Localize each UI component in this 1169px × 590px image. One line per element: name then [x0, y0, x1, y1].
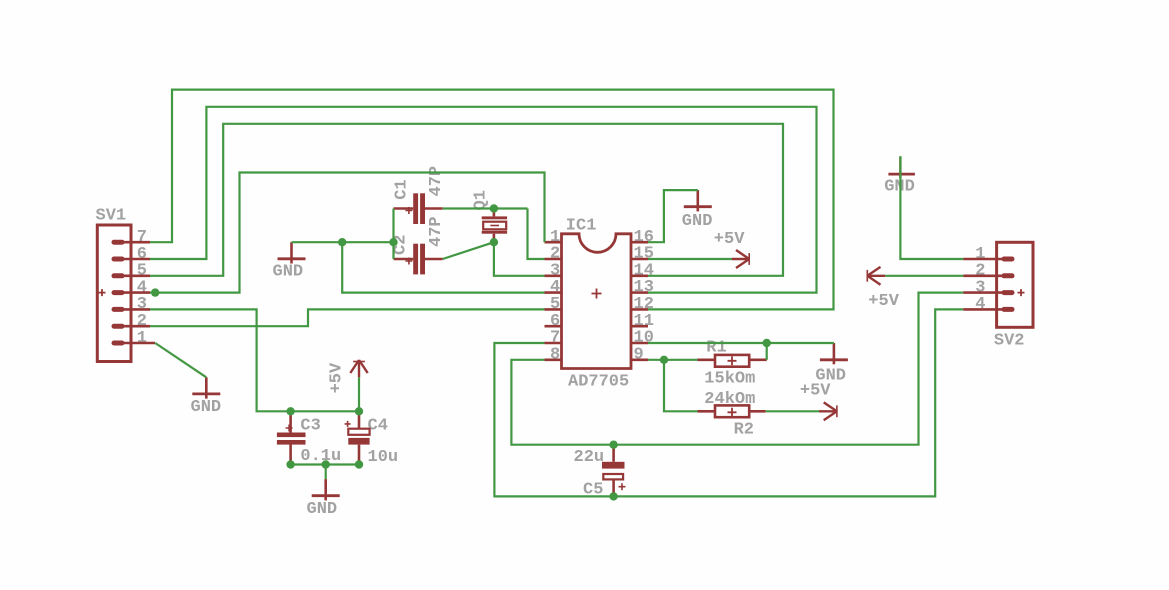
- connector SV1 body: [97, 225, 131, 362]
- capacitor C4 polarized: [345, 411, 370, 464]
- svg-text:SV1: SV1: [96, 207, 127, 226]
- SV1 pin 2: [112, 324, 151, 329]
- junction C1/C2 left node: [389, 238, 397, 246]
- ground symbol near C1/C2: [278, 242, 306, 263]
- IC1 pin 9 stub: [631, 358, 648, 361]
- svg-text:GND: GND: [191, 398, 222, 417]
- wire IC pin15 to +5V arrow: [648, 258, 732, 260]
- wire Q1 bottom to IC pin3: [494, 242, 545, 276]
- ground symbol near IC pin16: [684, 190, 712, 211]
- +5V arrow left at SV2 pin2: [867, 267, 885, 285]
- IC1 pin 12 stub: [631, 308, 648, 311]
- wire SV1 pin4 to IC pin1 (rail 4): [150, 173, 545, 293]
- ground symbol right of R1: [820, 343, 848, 364]
- connector SV2 body: [997, 242, 1033, 327]
- SV1 pin 3: [112, 307, 151, 312]
- svg-text:GND: GND: [273, 263, 304, 282]
- wire SV1 pin7 to IC pin12 (outer top rail): [150, 90, 834, 310]
- svg-text:+5V: +5V: [868, 292, 899, 311]
- IC1 pin 7 stub: [545, 342, 562, 345]
- svg-text:1: 1: [137, 329, 147, 348]
- IC1 pin 2 stub: [545, 258, 562, 261]
- IC1 pin 11 stub: [631, 325, 648, 328]
- +5V arrow after R2: [819, 402, 837, 420]
- svg-text:8: 8: [550, 345, 560, 364]
- wire SV1 pin2 to IC pin5: [150, 309, 545, 326]
- junction C5 bottom: [609, 492, 617, 500]
- SV2 pin 2: [963, 273, 1014, 278]
- svg-text:22u: 22u: [574, 448, 605, 467]
- capacitor C3: [277, 411, 306, 464]
- crystal Q1: [482, 209, 507, 243]
- svg-text:+5V: +5V: [328, 362, 347, 393]
- +5V arrow at IC pin15: [732, 250, 750, 268]
- SV1 pin 5: [112, 273, 151, 278]
- capacitor C5 polarized: [602, 445, 626, 497]
- wire down to IC pin2: [528, 209, 545, 260]
- IC1 pin 1 stub: [545, 241, 562, 244]
- wire C1 right to Q1 top to x527.5: [443, 207, 528, 209]
- svg-text:AD7705: AD7705: [568, 373, 629, 392]
- IC1 origin cross: [592, 289, 602, 299]
- wire SV1 pin3 to C3/C4 top rail: [150, 309, 359, 411]
- junction C4 bottom: [355, 460, 363, 468]
- svg-text:0.1u: 0.1u: [300, 447, 341, 466]
- junction C4 top: [355, 407, 363, 415]
- SV2 polarity mark +: [1018, 289, 1025, 296]
- wire SV2 pin1 to GND top: [900, 156, 963, 259]
- resistor R2: [698, 405, 766, 417]
- junction GND rail branch: [338, 238, 346, 246]
- wire diagonal Q1 bottom to C2 right: [443, 242, 494, 259]
- svg-text:4: 4: [975, 295, 985, 314]
- IC1 pin 8 stub: [545, 358, 562, 361]
- svg-text:15kOm: 15kOm: [704, 370, 755, 389]
- wire SV1 pin1 to GND (diagonal): [155, 343, 206, 377]
- SV2 pin 4: [963, 307, 1014, 312]
- wire IC pin8 to C5 rail to SV2 pin3: [511, 293, 963, 445]
- IC1 pin 3 stub: [545, 274, 562, 277]
- IC1 pin 10 stub: [631, 342, 648, 345]
- svg-text:+5V: +5V: [714, 230, 745, 249]
- IC1 pin 16 stub: [631, 241, 648, 244]
- wire C3/C4 bottom rail to GND: [291, 463, 359, 465]
- +5V arrow up at C4: [350, 360, 367, 377]
- IC1 pin 5 stub: [545, 308, 562, 311]
- svg-text:47P: 47P: [427, 166, 446, 197]
- SV1 pin 6: [112, 257, 151, 262]
- capacitor C1: [394, 193, 443, 224]
- svg-text:SV2: SV2: [994, 332, 1025, 351]
- IC1 pin 15 stub: [631, 258, 648, 261]
- svg-text:GND: GND: [682, 212, 713, 231]
- ground symbol below C3/C4: [312, 479, 340, 500]
- svg-text:C1: C1: [393, 179, 412, 199]
- junction IC pin9 branch: [660, 356, 668, 364]
- IC1 body AD7705: [562, 234, 632, 369]
- wire branch pin9 down to R2: [664, 360, 698, 412]
- wire branch down to IC pin4: [342, 242, 544, 292]
- wire SV1 pin5 to IC pin14 (inner top rail): [150, 124, 783, 276]
- svg-text:10u: 10u: [368, 448, 399, 467]
- wire GND stub below C3/C4: [325, 465, 327, 480]
- wire SV1 pin6 to IC pin13 (middle top rail): [150, 107, 817, 293]
- ground symbol below SV1 pin1: [192, 377, 220, 398]
- SV2 pin 1: [963, 257, 1014, 262]
- svg-text:+5V: +5V: [800, 381, 831, 400]
- junction at SV1 pin4: [151, 288, 159, 296]
- junction IC pin10 / R1: [763, 339, 771, 347]
- IC1 pin 6 stub: [545, 325, 562, 328]
- junction C3 bottom: [286, 460, 294, 468]
- svg-text:R2: R2: [734, 420, 754, 439]
- SV2 pin 3: [963, 290, 1014, 295]
- wire GND rail to C1/C2 left node: [292, 241, 394, 243]
- SV1 pin 1: [112, 341, 156, 346]
- IC1 pin 14 stub: [631, 274, 648, 277]
- wire SV2 pin2 to +5V arrow: [885, 275, 963, 277]
- IC1 pin 13 stub: [631, 291, 648, 294]
- resistor R1: [698, 355, 767, 367]
- junction C5 top: [609, 441, 617, 449]
- junction GND mid bottom: [322, 460, 330, 468]
- SV1 pin 7: [112, 240, 151, 245]
- junction Q1 bottom: [490, 238, 498, 246]
- SV1 pin 4: [112, 290, 151, 295]
- ground symbol top right (inverted): [888, 157, 915, 178]
- wire IC pin7 to bottom rail to SV2 pin4: [494, 309, 963, 496]
- svg-text:GND: GND: [307, 500, 338, 519]
- wire C1/C2 left vertical: [392, 209, 394, 260]
- wire R1 right up to pin10 net: [766, 343, 768, 360]
- wire R2 right to +5V arrow: [766, 410, 819, 412]
- wire IC pin10 to GND right: [648, 342, 834, 344]
- junction C3 top: [286, 407, 294, 415]
- wire IC pin16 to GND: [648, 190, 698, 242]
- wire +5V branch at C4: [358, 377, 360, 411]
- wire IC pin9 to R1: [648, 359, 698, 361]
- SV1 polarity mark +: [99, 289, 106, 296]
- junction Q1 top: [490, 204, 498, 212]
- svg-text:9: 9: [634, 345, 644, 364]
- svg-text:47P: 47P: [427, 216, 446, 247]
- capacitor C2: [394, 244, 443, 275]
- IC1 pin 4 stub: [545, 291, 562, 294]
